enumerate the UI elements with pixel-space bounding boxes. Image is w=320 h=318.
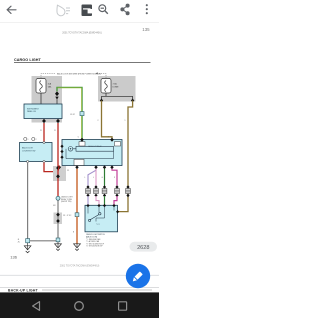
inline connector IC1 xyxy=(86,185,91,197)
connector circle C2 (colour change R to GR) xyxy=(56,196,60,200)
switch box (cargo light switch) xyxy=(85,205,118,232)
toolbar divider xyxy=(0,22,159,24)
wire green L from arrow to relay xyxy=(57,87,82,139)
connector code circle B1 xyxy=(24,137,27,140)
svg-text:2: 2 xyxy=(98,120,99,122)
fuse F2 (DOME) body xyxy=(101,79,111,94)
svg-text:BACK DOOR: BACK DOOR xyxy=(22,147,33,150)
connector box C1 xyxy=(53,166,66,181)
ground GND2 xyxy=(74,244,81,248)
relay bottom pin 8 xyxy=(110,165,113,169)
pin 3 of J/B xyxy=(42,119,46,123)
inline connector IC3 xyxy=(102,185,107,197)
svg-text:L: L xyxy=(93,177,94,179)
wire olive O2 long xyxy=(118,101,133,212)
page bottom edge xyxy=(0,274,159,276)
wire red R1 xyxy=(43,123,45,142)
title rule xyxy=(14,62,151,64)
svg-text:2001 TOYOTA TACOMA (EWD440U): 2001 TOYOTA TACOMA (EWD440U) xyxy=(62,32,102,35)
lower-left cyan box (back door courtesy sw) xyxy=(20,143,53,162)
relay left edge pins xyxy=(60,145,63,149)
junction J6 on grey wire xyxy=(26,239,30,243)
wire red from lower-left box to connector xyxy=(44,163,56,172)
android nav bar xyxy=(0,292,159,318)
fuse F1 (TAIL) body xyxy=(36,79,46,94)
toolbar doc icon xyxy=(82,5,93,17)
svg-text:(SHORT PIN): (SHORT PIN) xyxy=(61,201,72,203)
svg-text:DOME: DOME xyxy=(113,86,120,88)
svg-text:BACK-UP LIGHT: BACK-UP LIGHT xyxy=(8,288,39,292)
wire magenta P4 lower xyxy=(114,196,117,205)
fuse F2 element xyxy=(105,81,108,92)
switch box top pins xyxy=(87,204,90,207)
relay bottom pin 1 xyxy=(75,165,78,169)
svg-text:L: L xyxy=(85,177,86,179)
page pill 2628 xyxy=(130,242,158,252)
pin 2 of J/B xyxy=(56,119,60,123)
wire purple P1 lower xyxy=(87,196,89,205)
junction J7 on orange xyxy=(75,213,79,217)
ground GND0 xyxy=(27,243,29,246)
fuse F1 dashed leader to power source xyxy=(41,73,55,78)
inline connector IC5 xyxy=(126,185,131,197)
svg-text:J7 J/C: J7 J/C xyxy=(67,215,73,217)
wire darkgreen P3 lower xyxy=(104,196,106,205)
connector code circle B2 xyxy=(32,137,35,140)
svg-text:2: 2 xyxy=(36,139,37,141)
svg-text:CARGO LIGHT: CARGO LIGHT xyxy=(14,58,42,62)
FAB pencil xyxy=(133,272,143,282)
SCHEMATIC xyxy=(18,72,136,252)
svg-text:136: 136 xyxy=(10,255,17,260)
junction square on grey at ground xyxy=(56,238,60,242)
svg-text:COURTESY SW: COURTESY SW xyxy=(22,150,36,152)
svg-text:INSTRUMENT: INSTRUMENT xyxy=(27,108,40,110)
relay box (cargo light relay) xyxy=(62,140,122,166)
svg-text:7.5A: 7.5A xyxy=(113,82,118,85)
inline connector IC4 xyxy=(115,185,120,197)
wire grey G2 xyxy=(57,200,59,238)
bus bar in dome block xyxy=(102,93,133,99)
fuse F1 element xyxy=(40,81,43,92)
connector arrow A into J/B xyxy=(55,91,59,96)
svg-text:[BACK DOOR]: [BACK DOOR] xyxy=(86,235,98,238)
toolbar overflow menu xyxy=(146,4,148,14)
relay inner line xyxy=(66,149,114,159)
svg-text:C1: C1 xyxy=(67,170,69,172)
instrument panel J/B grey block xyxy=(32,76,63,123)
pin of dome block right xyxy=(131,99,134,103)
svg-text:*3 *4: *3 *4 xyxy=(96,224,100,226)
junction J5 on green wire xyxy=(80,112,84,116)
fuse F2 dashed leader with arrow xyxy=(98,73,107,78)
wire red relay to connector xyxy=(58,166,59,171)
nav recents xyxy=(119,302,127,310)
nav home xyxy=(75,302,84,311)
relay contact bar xyxy=(76,146,114,151)
wire magenta P4 xyxy=(112,169,117,186)
connector box C3 xyxy=(54,213,63,225)
relay top pin 3 xyxy=(110,138,114,142)
inline connector IC2 xyxy=(94,185,99,197)
ground GND1 xyxy=(57,242,59,244)
relay bottom pin 4 xyxy=(94,165,97,169)
nav back xyxy=(33,302,40,311)
wire grey G1 xyxy=(27,163,29,239)
svg-text:135: 135 xyxy=(142,27,150,32)
relay coil xyxy=(68,147,73,152)
wire olive O1 to relay xyxy=(102,101,113,140)
top-left cyan box (J/B upper) xyxy=(24,104,62,119)
svg-text:1: 1 xyxy=(28,139,29,141)
svg-text:1: 1 xyxy=(125,120,126,122)
relay bottom pin 2 xyxy=(58,165,61,169)
svg-text:J5 J/C: J5 J/C xyxy=(70,114,76,116)
svg-text:B: B xyxy=(73,232,74,234)
wire darkgreen P3 xyxy=(104,169,106,186)
wire red R2 xyxy=(57,123,59,196)
switch internals xyxy=(88,206,114,218)
relay top pin 5 xyxy=(80,138,84,142)
wire orange O3 lower xyxy=(76,217,78,244)
relay bottom pin 7 xyxy=(103,165,106,169)
FAB xyxy=(126,264,150,288)
svg-text:2628: 2628 xyxy=(137,245,149,251)
wire pink P2 lower xyxy=(96,196,99,205)
wire pink P2 xyxy=(95,169,97,186)
toolbar annotate icon (disabled) xyxy=(54,3,70,17)
pin of dome block left xyxy=(100,99,103,103)
svg-text:*4 : W/ SLIDING ROOF: *4 : W/ SLIDING ROOF xyxy=(86,246,103,248)
svg-text:J6: J6 xyxy=(18,239,20,241)
toolbar zoom-out icon xyxy=(99,5,108,14)
svg-text:2: 2 xyxy=(108,137,109,139)
svg-text:5: 5 xyxy=(78,137,79,139)
svg-text:C3: C3 xyxy=(63,215,65,217)
wire grey horizontal to ground node xyxy=(30,240,57,242)
svg-text:*3 : W/O SLIDING ROOF: *3 : W/O SLIDING ROOF xyxy=(86,243,104,245)
svg-text:BACK DOOR SW WIRE (FROM POWER: BACK DOOR SW WIRE (FROM POWER SOURCE) xyxy=(57,73,101,76)
switch box right pin xyxy=(116,210,119,213)
wire fuse F1 to J/B xyxy=(40,93,42,104)
toolbar back arrow xyxy=(7,6,16,13)
toolbar share icon xyxy=(121,4,129,15)
wire orange O3 xyxy=(76,169,78,213)
wire purple P1 xyxy=(88,169,96,186)
next page top edge xyxy=(0,287,159,289)
svg-text:PANEL J/B: PANEL J/B xyxy=(27,110,37,113)
svg-text:2001 TOYOTA TACOMA (EWD440U): 2001 TOYOTA TACOMA (EWD440U) xyxy=(60,265,100,268)
right grey block (dome fuse) xyxy=(98,76,136,102)
